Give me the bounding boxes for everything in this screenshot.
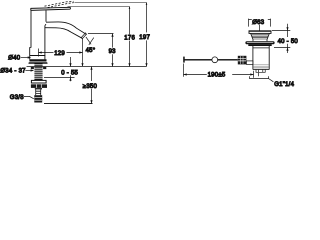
svg-text:G1"1/4: G1"1/4 [274,82,294,88]
drain center cross [258,73,260,76]
svg-text:129: 129 [54,51,65,57]
faucet body [30,11,31,60]
washer [31,80,46,83]
pop-up rod [184,59,238,60]
drain ribbed taper [251,33,270,41]
svg-text:≥350: ≥350 [83,84,98,90]
G1 1/4 leader [269,79,274,82]
svg-text:G3/8: G3/8 [10,95,24,101]
dim 93 [88,33,114,35]
outlet vertical extension to deck [82,39,84,67]
dim Ø63 [249,19,271,27]
svg-text:197: 197 [139,35,150,41]
supply tube [36,89,41,95]
drain flange [245,41,274,46]
svg-text:0 - 55: 0 - 55 [61,70,78,76]
spout outlet face [82,34,87,39]
drain cap [249,31,271,34]
washer tabs under deck [31,67,34,69]
supply block [35,88,42,89]
G3/8 end fitting [34,95,42,102]
drain body [253,46,269,70]
svg-text:Ø63: Ø63 [252,20,265,26]
svg-text:190±5: 190±5 [208,73,226,79]
extension line 176 top [68,6,130,8]
rod ball joint [212,57,218,63]
faucet base [30,55,45,57]
rod end cap [183,57,185,63]
svg-text:93: 93 [109,49,117,55]
svg-text:176: 176 [124,36,135,42]
dim >=350 [91,67,93,104]
dim 197 [146,3,148,67]
threaded shank [34,64,42,80]
dim 0-55 [70,57,72,81]
rod connector block [238,56,247,65]
dim 176 [129,7,131,67]
lever raised dashed [45,1,74,6]
G3/8 leader [24,96,34,98]
G1 1/4 bracket [250,76,269,78]
deck bottom line (0-55) [44,77,75,79]
svg-text:45°: 45° [86,48,96,54]
45 deg indicator lines [86,37,91,44]
svg-text:Ø34 - 37: Ø34 - 37 [0,69,26,75]
deck line [27,66,147,68]
lever closed [31,7,71,10]
floor line [44,103,93,105]
nut [31,84,47,88]
linkage to drain [246,61,253,65]
extension line 197 top [75,2,147,4]
svg-text:40 - 50: 40 - 50 [278,39,299,45]
dim 190±5 [183,64,185,77]
dim 129 [38,49,40,57]
svg-text:Ø40: Ø40 [8,56,21,62]
drain centerline [259,25,261,32]
spout [46,22,86,34]
dim 40-50 [272,30,290,32]
drain outlet stub [253,70,269,73]
